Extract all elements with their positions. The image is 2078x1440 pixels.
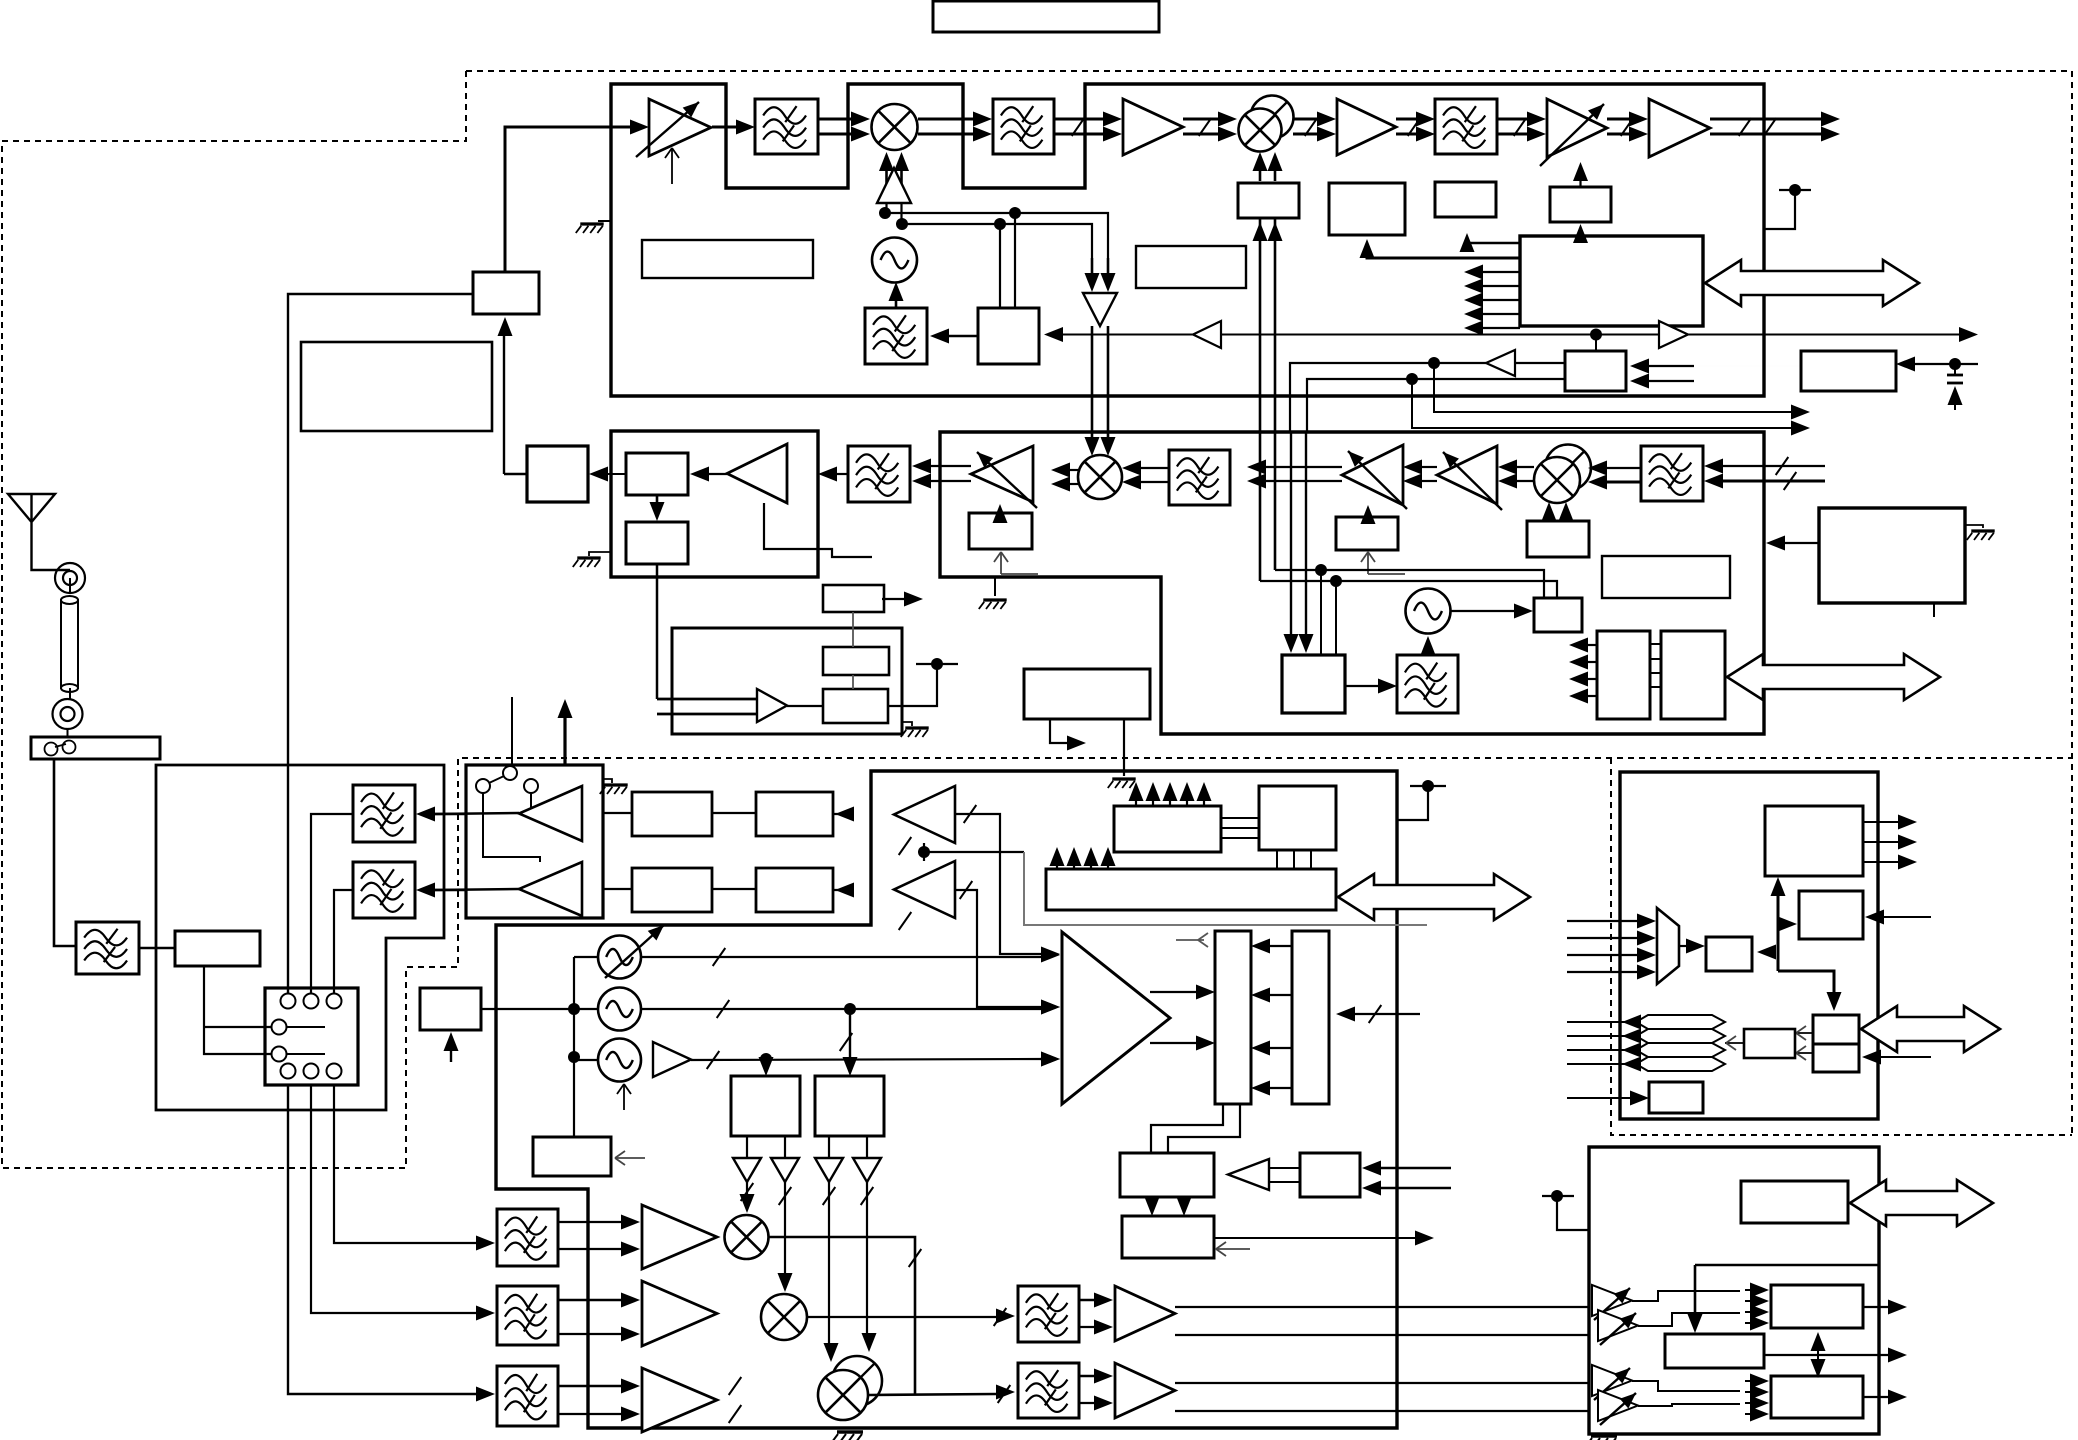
wire VGA2RX to VGA1RX bbox=[1421, 466, 1437, 468]
wire SAW to mux bbox=[288, 294, 473, 993]
filter IF out 1 bbox=[1018, 1286, 1079, 1342]
filter RX IF bbox=[848, 446, 910, 502]
amplifier TX1 bbox=[1123, 99, 1183, 155]
box TX control B2 bbox=[1329, 183, 1405, 235]
adjust arrow VCO3 bbox=[617, 1084, 631, 1110]
ground stub IF box bbox=[589, 552, 611, 556]
multiplexer box bbox=[265, 988, 358, 1085]
divider buffer 4 bbox=[853, 1158, 881, 1182]
wire VCO input rail bbox=[574, 956, 598, 958]
wire filter5 to mixer1RX bbox=[1140, 467, 1169, 469]
wire P2 input bbox=[1879, 1056, 1931, 1058]
box BB Q path 2 bbox=[756, 868, 833, 912]
filter FE1 bbox=[353, 785, 415, 842]
box MID control bbox=[1024, 669, 1150, 719]
wire PLL2 outputs bbox=[828, 1136, 830, 1158]
wire U1 inputs bbox=[1378, 1167, 1451, 1169]
wire mixer2RX to VGA2RX bbox=[1516, 466, 1534, 468]
wire VCO2 out bbox=[641, 1008, 1044, 1010]
box M3 bbox=[1649, 1082, 1703, 1113]
box RB B bbox=[1665, 1334, 1764, 1368]
box M1 bbox=[1706, 937, 1752, 971]
adjust arrow T2 bbox=[1216, 1242, 1250, 1256]
box RB top bbox=[1741, 1181, 1848, 1223]
wire VCO3 out bbox=[691, 1059, 1044, 1060]
wire W up arrows bbox=[1056, 861, 1058, 869]
amplifier TX a bbox=[642, 1205, 717, 1269]
tall box DAC2 bbox=[1292, 931, 1329, 1104]
wire AGC IF out bbox=[882, 598, 905, 600]
wire MID ground stub bbox=[1123, 719, 1125, 776]
oscillator VCO3 bbox=[598, 1039, 641, 1082]
wire B2 feed bbox=[1367, 248, 1520, 258]
wire div feed 1 bbox=[765, 1059, 767, 1066]
wire mixer1 to filter2 pair bbox=[918, 118, 974, 121]
wire aux osc out bbox=[1450, 610, 1516, 612]
wire K2 input right bbox=[1883, 916, 1931, 918]
box reference R2 bbox=[1801, 351, 1896, 391]
wire antenna TX line bbox=[563, 712, 566, 764]
wire FE1 to mux bbox=[311, 814, 353, 993]
TX switch box bbox=[466, 765, 603, 918]
wire div2 to mixer b bbox=[784, 1182, 786, 1278]
wire VCO1 out bbox=[641, 956, 1046, 958]
wire TXc to amp bbox=[558, 1385, 622, 1388]
wire IF1 out pair bbox=[1079, 1299, 1097, 1302]
box TCXO bbox=[1565, 351, 1626, 391]
wire bb node link bbox=[923, 843, 925, 861]
ground BB bbox=[902, 722, 912, 726]
switch circles bbox=[476, 779, 490, 793]
box T2 bbox=[1122, 1216, 1214, 1258]
node dots LO bus bbox=[879, 207, 891, 219]
wire div1 to mixer a bbox=[746, 1182, 748, 1202]
front-end module box bbox=[156, 765, 444, 1110]
ground regulator bbox=[1965, 525, 1983, 528]
box divider DIV bbox=[1282, 655, 1345, 713]
filter RX5 bbox=[1169, 450, 1230, 505]
wire VVA2 links bbox=[1632, 1381, 1740, 1391]
wire RB rail bbox=[1695, 1264, 1879, 1267]
box TX control B4 bbox=[1550, 187, 1611, 222]
label box front-end bbox=[301, 342, 492, 431]
wire buffers out bbox=[433, 813, 519, 814]
wire mixer2RX LO arrows bbox=[1548, 516, 1550, 521]
wire arrow into VCO bbox=[895, 300, 898, 308]
buffer BB bbox=[757, 689, 787, 722]
capacitor varactor bbox=[1954, 364, 1956, 374]
box crystal XTAL bbox=[533, 1137, 611, 1176]
ground transceiver bottom bbox=[832, 1432, 863, 1440]
wire mixer1RX to VGA0 bbox=[1068, 469, 1078, 471]
box BB2 bbox=[823, 689, 888, 723]
wire IF feedback stub bbox=[764, 503, 872, 557]
TX module castellated box bbox=[611, 84, 1764, 396]
antenna switch box bbox=[31, 737, 160, 759]
digital interface box bbox=[1620, 772, 1878, 1119]
amplifier bb Q bbox=[894, 861, 955, 918]
amplifier IF out 1 bbox=[1115, 1286, 1175, 1341]
ground at switch box bbox=[603, 779, 612, 783]
VGA amplifier TX1 bbox=[649, 99, 711, 156]
transceiver IC stepped box bbox=[496, 771, 1397, 1428]
box EEPROM2 bbox=[1661, 631, 1725, 719]
wire gray rail bbox=[1024, 852, 1427, 925]
oscillator TX VCO bbox=[872, 238, 917, 283]
wire B out bbox=[1764, 1354, 1889, 1356]
wire TCXO net A bbox=[1290, 363, 1486, 432]
switch contacts bbox=[45, 743, 58, 756]
wire A out bbox=[1863, 1306, 1889, 1308]
wire div3 to mixer c bbox=[828, 1182, 830, 1348]
buffer VCO3 bbox=[653, 1042, 691, 1077]
wire mux to TXa bbox=[334, 1085, 477, 1243]
wire VGA1RX to filter5 bbox=[1265, 466, 1342, 468]
wire tri out 2 bbox=[1150, 1042, 1197, 1044]
wire filter1 to mixer1 pair bbox=[818, 118, 852, 121]
gray arrow into DAC1 bbox=[1176, 939, 1204, 941]
box AGC RX0 bbox=[969, 513, 1032, 549]
wire buffer to VCO bbox=[885, 203, 887, 213]
mux port circles top bbox=[281, 994, 296, 1009]
box matching MB bbox=[175, 931, 260, 966]
wire PDC up arrow bbox=[450, 1046, 452, 1062]
wire VVA1 links bbox=[1632, 1291, 1740, 1301]
wire mixer2 to amp2 pair bbox=[1293, 118, 1318, 121]
wire K1K2 riser bbox=[1777, 893, 1780, 971]
wire LO bus B bbox=[902, 224, 1092, 258]
wire DAC1 steps bbox=[1151, 1104, 1223, 1153]
wire LO drops to divbox bbox=[1320, 570, 1322, 655]
wire IF1 to detector bbox=[624, 473, 626, 475]
wire bb Q input bbox=[955, 890, 1044, 1007]
wire T1-T2 arrows bbox=[1151, 1197, 1153, 1202]
buffer amp LO down bbox=[1083, 293, 1117, 326]
updown arrow RB bbox=[1817, 1344, 1819, 1366]
wire TX input bbox=[505, 127, 630, 272]
wire riser elbow bbox=[1778, 971, 1834, 996]
wire mux out bbox=[1679, 945, 1688, 947]
big arrow digital right bbox=[1861, 1006, 2000, 1052]
box BB Q path 1 bbox=[632, 868, 712, 912]
big arrow TX digital bus bbox=[1705, 260, 1919, 306]
wire MB to mux ports bbox=[204, 966, 271, 1054]
wire FE1 input bbox=[433, 813, 466, 815]
amplifier IF bbox=[727, 444, 787, 503]
box divider PLL1 bbox=[731, 1076, 800, 1136]
wire mux to TXc bbox=[288, 1085, 477, 1394]
mixer TX2 image-reject bbox=[1251, 96, 1294, 139]
filter TXBB b bbox=[497, 1286, 558, 1345]
tall box DAC1 bbox=[1215, 931, 1251, 1104]
box K0 bbox=[1259, 786, 1336, 850]
divider buffer 3 bbox=[815, 1158, 843, 1182]
wire P to M2 links bbox=[1795, 1032, 1813, 1034]
box detector DET bbox=[527, 446, 588, 502]
VGA amplifier TX2 bbox=[1547, 99, 1607, 157]
wire TCXO out A bbox=[1515, 362, 1565, 364]
buffer TCXO bbox=[1486, 350, 1515, 376]
wire filter to mixer2RX bbox=[1606, 467, 1641, 469]
wire C out bbox=[1863, 1396, 1889, 1398]
wire filter2 to amp1 pair bbox=[1054, 118, 1104, 121]
wire FE2 to mux bbox=[334, 890, 353, 993]
wire filter to osc bbox=[1427, 650, 1429, 655]
wire div4 to mixer c2 bbox=[866, 1182, 868, 1340]
buffer T bbox=[1228, 1159, 1269, 1190]
wire amp2 to filter3 pair bbox=[1396, 118, 1417, 121]
amplifier TX c bbox=[642, 1368, 717, 1432]
wire buffer out bbox=[787, 705, 823, 707]
wire TCXO net B bbox=[1307, 379, 1565, 432]
wire V5-K0 links bbox=[1221, 817, 1259, 819]
box IF1 bbox=[626, 453, 688, 495]
wire IF1 to RB bbox=[1175, 1306, 1589, 1308]
label box right bbox=[1602, 556, 1730, 598]
box BB I path 1 bbox=[632, 792, 712, 836]
wire S1 risers to LO bus bbox=[999, 224, 1001, 308]
VGA amplifier RX2 bbox=[1437, 446, 1497, 504]
wire LO return A bbox=[1275, 570, 1544, 598]
divider buffer 2 bbox=[771, 1158, 799, 1182]
antenna bbox=[8, 494, 70, 570]
wire mixer a out bbox=[769, 1237, 915, 1394]
mux trapezoid bbox=[1657, 908, 1679, 984]
wire ground stub RX0 bbox=[994, 577, 996, 596]
wire bb row2 bbox=[603, 888, 632, 890]
box P2 bbox=[1813, 1044, 1859, 1072]
wire B3 feed bbox=[1467, 240, 1520, 243]
mixer TX a bbox=[725, 1215, 769, 1259]
wire cap net bbox=[1914, 363, 1978, 365]
connector top bbox=[55, 563, 85, 593]
wire power stub W bbox=[1397, 786, 1428, 820]
filter TX2 bbox=[993, 99, 1054, 154]
wire filter to matching box bbox=[139, 947, 175, 950]
mixer RX1 bbox=[1078, 455, 1122, 499]
wire PLL1 outputs bbox=[746, 1136, 748, 1158]
filter antenna bbox=[76, 922, 139, 974]
box BB I path 2 bbox=[756, 792, 833, 836]
wire TX outputs pair bbox=[1710, 118, 1822, 121]
wire power stub TX right bbox=[1764, 190, 1795, 229]
adjust arrow AGC RX1 bbox=[1361, 552, 1375, 574]
wire div feed 2 bbox=[849, 1009, 851, 1066]
VVA 1b bbox=[1598, 1310, 1638, 1341]
wire LO drops arrows bbox=[1290, 432, 1292, 638]
box AGC RX1 bbox=[1336, 517, 1398, 550]
wire VGA2 to amp3 pair bbox=[1607, 118, 1630, 121]
amplifier bb I bbox=[894, 786, 955, 843]
wire R2 net bbox=[1698, 365, 1801, 367]
wire AGC to VGA1RX bbox=[1367, 513, 1369, 517]
title box bbox=[933, 1, 1159, 32]
wire RX input pair right bbox=[1722, 465, 1825, 467]
box U1 bbox=[1300, 1153, 1360, 1197]
wire DAC2 input bbox=[1354, 1013, 1420, 1015]
box battery regulator bbox=[1819, 508, 1965, 603]
buffer amp LO up bbox=[877, 168, 911, 203]
mux port circles mid bbox=[272, 1020, 287, 1035]
dashed boundary top and right bbox=[466, 71, 2072, 1135]
RX module stepped box bbox=[940, 432, 1764, 734]
mixer TX c bbox=[832, 1356, 882, 1406]
VVA 2a bbox=[1592, 1365, 1632, 1396]
RX IF box bbox=[611, 431, 818, 577]
adjust arrow XTAL bbox=[615, 1151, 645, 1165]
wire IF2 out pair bbox=[1079, 1375, 1097, 1378]
wire TXb to amp bbox=[558, 1299, 622, 1302]
coax cable bbox=[61, 600, 78, 688]
wire MID stub arrow bbox=[1050, 719, 1068, 743]
wire mux to TXb bbox=[311, 1085, 477, 1313]
VVA 1a bbox=[1592, 1285, 1632, 1316]
wire filter IF to IF box bbox=[836, 473, 848, 475]
mixer TX1 bbox=[872, 104, 918, 150]
amplifier IF out 2 bbox=[1115, 1363, 1175, 1418]
adjust arrow under VGA TX1 bbox=[665, 148, 679, 184]
wire switch internals bbox=[483, 793, 540, 862]
oscillator VCO1 bbox=[598, 936, 641, 979]
filter TXBB c bbox=[497, 1366, 558, 1426]
box IF2 bbox=[626, 522, 688, 564]
wire amp1 to mixer2 pair bbox=[1183, 118, 1219, 121]
wire bb row1 bbox=[603, 812, 632, 814]
buffer ref right bbox=[1659, 321, 1688, 348]
wire EEPROM link bbox=[1650, 643, 1661, 645]
wire TX LO pair vertical bbox=[1259, 218, 1262, 581]
big arrow digital bus W bbox=[1338, 874, 1530, 920]
wire filter3 to VGA2 pair bbox=[1497, 118, 1528, 121]
wire T2 out bbox=[1214, 1237, 1416, 1239]
wire T links bbox=[1269, 1167, 1300, 1169]
wire tri out 1 bbox=[1150, 991, 1197, 993]
wire BB node bbox=[916, 663, 958, 665]
VGA amplifier RX0 bbox=[971, 446, 1033, 502]
box regs V5 bbox=[1114, 806, 1221, 852]
filter TXBB a bbox=[497, 1209, 558, 1266]
wire DIV to filter bbox=[1345, 685, 1380, 687]
VGA amplifier RX1 bbox=[1342, 445, 1403, 505]
big arrow RB bbox=[1850, 1180, 1993, 1226]
amplifier TX3 bbox=[1649, 99, 1710, 157]
box LO drive RX2 bbox=[1527, 521, 1589, 557]
wire DET to SAW bbox=[504, 332, 527, 474]
wire mixer c out bbox=[869, 1394, 996, 1395]
wire VGA0 out pair bbox=[930, 465, 971, 467]
dashed boundary left outer bbox=[2, 71, 2072, 1168]
dashed boundary digital section bbox=[1611, 758, 2072, 1135]
wire M2 to bus bbox=[1725, 1042, 1744, 1044]
wire IF2 to RB bbox=[1175, 1382, 1589, 1384]
oscillator VCO2 bbox=[598, 988, 641, 1031]
box PDC bbox=[420, 988, 481, 1030]
wire ctrl line C bbox=[1434, 363, 1792, 412]
buffer TX lo bbox=[519, 862, 582, 916]
filter DIV bbox=[1397, 655, 1458, 713]
wire A-B links bbox=[1695, 1301, 1697, 1315]
filter TX3 bbox=[1435, 99, 1497, 154]
wire AGC0 to VGA0 bbox=[999, 508, 1001, 513]
wire connector to switch bbox=[67, 729, 69, 737]
label box TX internal bbox=[642, 240, 813, 278]
buffer ref left bbox=[1193, 321, 1221, 348]
wire B4 feed bbox=[1579, 236, 1582, 240]
wire reference clock line bbox=[1062, 334, 1193, 336]
box EEPROM1 bbox=[1597, 631, 1650, 719]
box BB block bbox=[672, 628, 902, 734]
box synthesizer S1 bbox=[978, 308, 1039, 364]
wire RB power stub bbox=[1542, 1195, 1574, 1197]
box P1 bbox=[1813, 1015, 1859, 1044]
wire mux inputs bbox=[1567, 920, 1639, 922]
ground at TX box left bbox=[598, 220, 611, 222]
wire EEPROM stubs bbox=[1587, 644, 1597, 646]
box RB A bbox=[1771, 1285, 1863, 1328]
wire arrows into phase box bbox=[1253, 222, 1268, 241]
wire LO arrows into mixer1 bbox=[885, 170, 888, 203]
wire TCXO inputs bbox=[1648, 365, 1694, 367]
filter VCO loop bbox=[865, 308, 927, 364]
mixer RX2 bbox=[1545, 445, 1591, 491]
box K2 bbox=[1799, 891, 1863, 939]
box power control U3 bbox=[1520, 236, 1703, 326]
wire K0 stubs bbox=[1276, 850, 1278, 869]
big arrow EEPROM bus bbox=[1727, 654, 1940, 700]
wire SAW to TX input bbox=[504, 127, 507, 272]
wire M3 input bbox=[1567, 1097, 1631, 1099]
wire regulator stub bbox=[1933, 603, 1935, 617]
wire IF1 down arrow bbox=[656, 495, 659, 506]
bus lane 1 bbox=[1636, 1015, 1725, 1029]
oscillator aux bbox=[1406, 589, 1451, 634]
box aux buf bbox=[1534, 598, 1582, 632]
filter FE2 bbox=[353, 862, 415, 918]
box LO phase shifter bbox=[1238, 183, 1299, 218]
filter IF out 2 bbox=[1018, 1363, 1079, 1418]
summing triangle bbox=[1062, 932, 1170, 1104]
filter TX1 bbox=[755, 99, 818, 154]
wire PDC link bbox=[481, 1008, 574, 1010]
VVA 2b bbox=[1598, 1390, 1638, 1421]
wire LO pair arrows down bbox=[1091, 258, 1094, 276]
wire K1 outputs bbox=[1863, 821, 1899, 823]
box K1 bbox=[1765, 806, 1863, 876]
amplifier TX b bbox=[642, 1281, 717, 1346]
label box TX internal 2 bbox=[1136, 246, 1246, 288]
wire amp IF to box IF1 bbox=[706, 473, 727, 475]
buffer TX hi bbox=[519, 786, 582, 841]
wire bb I input bbox=[955, 814, 1044, 954]
wire RB in row1 bbox=[1589, 1306, 1598, 1308]
bus lane 3 bbox=[1636, 1043, 1725, 1057]
box T1 bbox=[1120, 1153, 1214, 1197]
wire V5 up arrows bbox=[1135, 796, 1137, 806]
filter RX1 bbox=[1641, 446, 1703, 501]
wire LO bus A bbox=[885, 213, 1108, 258]
wire M1 input right bbox=[1774, 951, 1776, 953]
connector bottom bbox=[53, 699, 83, 729]
bus lane 2 bbox=[1636, 1029, 1725, 1043]
wire DAC2-DAC1 arrows bbox=[1269, 945, 1292, 947]
wire VGA1 to filter bbox=[712, 126, 737, 129]
adjust arrow AGC RX0 bbox=[994, 552, 1008, 574]
mixer TX b bbox=[761, 1294, 807, 1340]
wire IF2 down bbox=[656, 564, 659, 699]
wire synth to filter bbox=[948, 335, 978, 338]
divider buffer 1 bbox=[733, 1158, 761, 1182]
box AGC IF bbox=[823, 585, 884, 612]
